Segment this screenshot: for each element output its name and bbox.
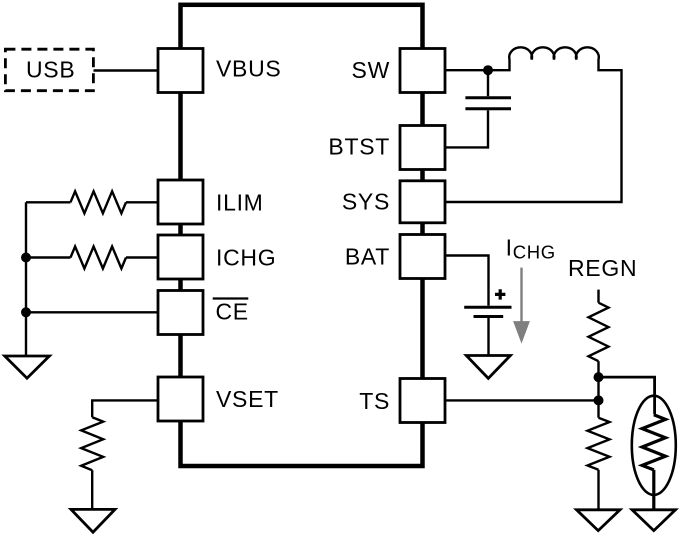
svg-text:CE: CE [216,299,249,325]
svg-text:TS: TS [359,388,390,414]
svg-text:BAT: BAT [345,244,390,270]
svg-text:ILIM: ILIM [216,190,264,216]
svg-text:VSET: VSET [216,386,279,412]
svg-text:VBUS: VBUS [216,56,281,82]
svg-text:SYS: SYS [342,189,390,215]
svg-text:USB: USB [26,57,75,83]
svg-text:ICHG: ICHG [506,234,556,262]
svg-text:REGN: REGN [568,255,637,281]
svg-text:SW: SW [352,57,390,83]
svg-text:BTST: BTST [328,134,390,160]
svg-text:ICHG: ICHG [216,245,276,271]
